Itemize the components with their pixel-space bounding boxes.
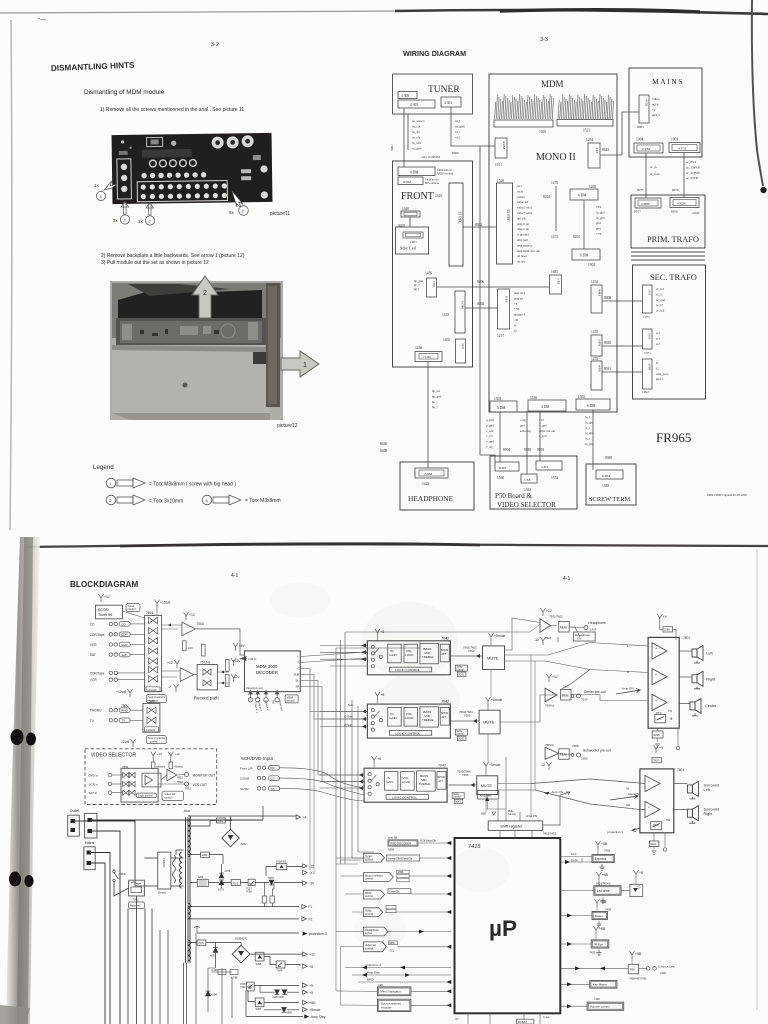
svg-text:4 301: 4 301: [444, 101, 452, 105]
svg-text:PHONO: PHONO: [90, 709, 102, 713]
svg-text:ATT: ATT: [441, 715, 446, 719]
screw arrow left with circle 3: [104, 181, 117, 190]
vcr out jack: [185, 782, 189, 786]
svg-text:7420: 7420: [594, 997, 600, 1001]
SCAN_ARTIFACTS: [0, 0, 768, 530]
svg-text:1425: 1425: [422, 482, 429, 486]
PAGE2 BACKGROUND & ARTIFACTS: [0, 537, 768, 1024]
svg-text:tu_stereo: tu_stereo: [412, 119, 425, 123]
svg-text:control: control: [365, 877, 373, 881]
svg-text:SL: SL: [626, 787, 630, 791]
svg-text:tu_l: tu_l: [455, 119, 460, 123]
connector 4296: [197, 879, 208, 886]
svg-text:control: control: [365, 912, 373, 916]
microprocessor 7415: [455, 838, 561, 1013]
sound selector control flag: [363, 873, 393, 882]
legend item 3: [202, 495, 212, 505]
svg-text:7003: 7003: [232, 881, 238, 885]
bus wires to uP flags: [336, 858, 363, 982]
svg-text:+8D: +8D: [481, 812, 487, 816]
TUNER box: [393, 74, 473, 114]
F1 F2 bus: [189, 906, 300, 908]
svg-text:8056: 8056: [671, 210, 678, 214]
svg-text:Subwoofer pre-out: Subwoofer pre-out: [583, 749, 611, 753]
svg-text:HEADPHONE: HEADPHONE: [408, 494, 454, 503]
svg-text:1302: 1302: [578, 395, 585, 399]
tuner control flag: [363, 853, 384, 862]
svg-text:TREBLE: TREBLE: [422, 655, 434, 659]
svg-text:15 PFC: 15 PFC: [458, 211, 463, 224]
svg-text:TUNER: TUNER: [428, 85, 460, 95]
svg-text:MDM 3000: MDM 3000: [256, 664, 278, 669]
svg-text:12V: 12V: [188, 646, 193, 650]
diode 6208: [206, 991, 211, 996]
diode 6999: [282, 1007, 287, 1012]
IR eye box: [594, 926, 599, 934]
svg-text:-7992: -7992: [132, 898, 140, 902]
long verticals to bottom: [128, 896, 152, 1024]
svg-text:c stg: c stg: [520, 418, 526, 422]
svg-text:control: control: [150, 698, 158, 702]
svg-text:780X: 780X: [677, 768, 685, 772]
svg-text:BLOCKDIAGRAM: BLOCKDIAGRAM: [70, 580, 138, 589]
svg-text:gnd_a: gnd_a: [652, 113, 660, 117]
svg-text:4-1: 4-1: [231, 573, 238, 579]
tuner right wire to MDM 1511: [451, 107, 495, 462]
svg-text:8202: 8202: [543, 195, 550, 199]
screw arrow right 6x circle 2: [232, 191, 243, 208]
video sel control flag: [363, 942, 386, 952]
svg-text:700/70/3: 700/70/3: [276, 860, 287, 864]
svg-text:+5mute: +5mute: [489, 763, 501, 767]
svg-text:+: +: [655, 647, 657, 651]
speakers SL SR: [687, 785, 692, 793]
svg-text:7002: 7002: [218, 819, 224, 823]
svg-text:1410: 1410: [435, 194, 442, 198]
svg-text:tu_sda: tu_sda: [412, 141, 421, 145]
svg-text:+F: +F: [303, 816, 307, 820]
screw arrow bottom2 with circle 3: [146, 203, 154, 216]
box 7079: [197, 940, 206, 945]
input wires box3: [320, 775, 364, 788]
tuner signal wires down: [404, 108, 408, 167]
svg-text:amp main cntr sub: amp main cntr sub: [517, 249, 540, 253]
svg-text:GAIN: GAIN: [389, 716, 396, 720]
svg-text:+12V: +12V: [233, 659, 242, 663]
svg-text:6208: 6208: [211, 993, 217, 997]
svg-text:control: control: [287, 699, 295, 703]
svg-text:r/dkay: r/dkay: [652, 97, 660, 101]
svg-text:-12: -12: [534, 638, 539, 642]
svg-text:3 E8: 3 E8: [432, 281, 436, 287]
svg-text:+30: +30: [514, 307, 519, 311]
svg-text:1x: 1x: [138, 219, 144, 224]
svg-text:1272: 1272: [551, 235, 558, 239]
svg-text:8401: 8401: [390, 144, 394, 151]
svg-text:6206/6202: 6206/6202: [235, 937, 248, 941]
svg-text:f2: f2: [656, 366, 659, 370]
svg-text:-12V: -12V: [233, 675, 241, 679]
svg-text:2 VM: 2 VM: [642, 147, 650, 151]
center pre amp 7660-a: [547, 674, 552, 682]
svg-text:IR Eye: IR Eye: [594, 942, 603, 946]
svg-text:3 E8: 3 E8: [648, 289, 652, 295]
svg-text:1385: 1385: [602, 484, 609, 488]
box 7044: [276, 961, 285, 968]
svg-text:3 E8: 3 E8: [524, 478, 531, 482]
antenna +15sat: [155, 600, 160, 608]
svg-text:protection 1: protection 1: [607, 830, 623, 834]
svg-text:ac_PVA: ac_PVA: [686, 160, 697, 164]
svg-text:protection 3: protection 3: [309, 932, 327, 936]
svg-text:8008: 8008: [604, 296, 611, 300]
svg-text:dd req: dd req: [517, 260, 525, 264]
svg-text:-: -: [648, 786, 649, 790]
resistors before decoder: [226, 659, 230, 671]
svg-text:ac_A: ac_A: [650, 165, 657, 169]
mains switch: [113, 870, 115, 872]
svg-text:7660-b: 7660-b: [545, 743, 554, 747]
svg-text:8306: 8306: [452, 151, 459, 155]
svg-text:1511: 1511: [495, 163, 502, 167]
svg-text:VIDEO SELECTOR: VIDEO SELECTOR: [91, 753, 137, 759]
svg-text:subw sig: subw sig: [520, 429, 531, 433]
box 9097: [255, 998, 264, 1007]
svg-text:SPKR: SPKR: [441, 711, 448, 715]
L/R in wires to decoder top: [336, 641, 420, 648]
svg-text:7042: 7042: [441, 700, 449, 704]
key matrix box: [590, 981, 617, 989]
svg-text:MFD: MFD: [367, 978, 374, 982]
svg-text:4 4H: 4 4H: [541, 465, 548, 469]
pin labels (rotated, illegible in scan): [495, 94, 614, 119]
headphone sense flag: [363, 927, 388, 936]
svg-text:ssfiac sel: ssfiac sel: [517, 200, 528, 204]
svg-text:CDR/Tape: CDR/Tape: [90, 633, 105, 637]
svg-text:C-out: C-out: [543, 1015, 550, 1019]
wires from mute1 to headphone/power amps: [505, 618, 649, 673]
record amp 7504: [175, 660, 180, 668]
svg-text:Stby Led: Stby Led: [400, 246, 417, 251]
svg-text:2) Remove backplate a little b: 2) Remove backplate a little backwards. …: [101, 253, 245, 259]
svg-text:LOGIC CONTROL: LOGIC CONTROL: [395, 731, 420, 735]
svg-text:cl ground: cl ground: [517, 233, 529, 237]
svg-text:+D: +D: [455, 1017, 459, 1021]
svg-text:Record path: Record path: [194, 696, 219, 701]
svg-text:P50 Board &: P50 Board &: [495, 492, 533, 500]
wires mains to prim trafo: [646, 153, 684, 199]
svg-text:f1: f1: [514, 323, 517, 327]
svg-text:amp ir on: amp ir on: [517, 222, 529, 226]
svg-text:F2: F2: [308, 918, 312, 922]
svg-text:ac_33VB: ac_33VB: [686, 176, 698, 180]
svg-text:FR965: FR965: [656, 430, 691, 445]
svg-text:Left: Left: [706, 652, 713, 656]
decoder output bus wires: [300, 652, 367, 657]
svg-text:VCR OUT: VCR OUT: [193, 783, 207, 787]
MAINS box: [629, 68, 702, 157]
svg-text:Key Matrix: Key Matrix: [593, 983, 608, 987]
svg-text:15 PFC: 15 PFC: [506, 209, 511, 222]
svg-text:TREBLE: TREBLE: [422, 718, 434, 722]
faint scan ghosting on page2: [270, 582, 510, 950]
menu navigator box: [378, 987, 411, 996]
svg-text:6279: 6279: [225, 869, 231, 873]
svg-text:MONO II: MONO II: [536, 152, 576, 163]
digital input jacks: [248, 698, 252, 702]
svg-text:PHO: PHO: [121, 709, 128, 713]
box 7003: [231, 880, 240, 886]
small speck top-left: [38, 18, 46, 20]
svg-text:+5V: +5V: [239, 644, 246, 648]
svg-text:subw pin out: subw pin out: [539, 429, 555, 433]
svg-text:805 version: 805 version: [425, 181, 440, 185]
svg-text:Mute: Mute: [560, 625, 567, 629]
svg-text:GAIN: GAIN: [386, 780, 393, 784]
svg-text:Amp Stby: Amp Stby: [367, 971, 381, 975]
wire 8402: [465, 307, 498, 309]
headphone pre amp 7607: [541, 608, 546, 616]
svg-text:TRAFO: TRAFO: [162, 858, 166, 868]
svg-text:LOUD: LOUD: [405, 653, 414, 657]
svg-text:SAT: SAT: [121, 653, 127, 657]
svg-text:1003: 1003: [671, 138, 678, 142]
svg-text:ac_gnd: ac_gnd: [656, 298, 665, 302]
svg-text:7 DM: 7 DM: [423, 355, 431, 359]
pin header bar 2: [557, 120, 613, 127]
svg-text:8085: 8085: [637, 125, 644, 129]
svg-text:RC6 Data/Clk: RC6 Data/Clk: [420, 839, 437, 843]
svg-text:ssclk: ssclk: [517, 189, 524, 193]
svg-text:6 DM: 6 DM: [602, 474, 610, 478]
svg-text:7807: 7807: [653, 759, 659, 763]
pin header bar 1: [494, 120, 553, 127]
tuner signal labels: [390, 119, 465, 159]
svg-text:LOGIC: LOGIC: [148, 688, 158, 692]
svg-text:DVD in: DVD in: [89, 774, 99, 778]
svg-text:VCR: VCR: [90, 643, 97, 647]
svg-text:SPKR: SPKR: [441, 648, 448, 652]
svg-text:amp tr int: amp tr int: [517, 227, 529, 231]
15PFC signal list: [517, 184, 540, 264]
primary winding: [180, 852, 182, 888]
svg-text:amp_pace: amp_pace: [656, 372, 669, 376]
svg-text:1075: 1075: [643, 315, 650, 319]
svg-text:Menu Navigator: Menu Navigator: [380, 990, 400, 994]
page2 left dark smudge band: [0, 0, 1, 1]
svg-text:Right: Right: [706, 677, 716, 681]
svg-text:= Torx M3x8mm: = Torx M3x8mm: [245, 498, 281, 504]
svg-text:6202: 6202: [650, 842, 656, 846]
screw arrow bottom1 with circle 2: [121, 202, 129, 215]
svg-text:SL/SR: SL/SR: [240, 787, 250, 791]
svg-text:Amp ON: Amp ON: [628, 792, 639, 796]
svg-text:7405: 7405: [604, 849, 611, 853]
svg-text:amp main tr: amp main tr: [517, 243, 532, 247]
svg-text:MDL FR965 /update 02-26-2000: MDL FR965 /update 02-26-2000: [707, 493, 747, 497]
relay 7992: [129, 880, 145, 896]
svg-text:PRIM. TRAFO: PRIM. TRAFO: [647, 235, 699, 244]
svg-text:7415: 7415: [468, 844, 481, 850]
phono/tv switch box: [128, 689, 133, 697]
svg-text:8201: 8201: [573, 235, 580, 239]
svg-text:VCR: VCR: [90, 678, 97, 682]
HEADPHONE box: [400, 462, 474, 510]
arrow 1 right: [281, 351, 319, 377]
WIRING DIAGRAM part 2: [380, 68, 747, 510]
speakers LRC: [692, 649, 697, 657]
connector 1511 4DM: [495, 138, 507, 158]
svg-text:TREBLE: TREBLE: [419, 782, 431, 786]
svg-text:ac_118VB: ac_118VB: [686, 171, 700, 175]
svg-text:Dismantling of MDM module: Dismantling of MDM module: [84, 89, 165, 96]
svg-text:-: -: [655, 653, 656, 657]
svg-text:Video sel: Video sel: [165, 792, 176, 796]
svg-text:Data/Clk: Data/Clk: [390, 890, 401, 894]
svg-text:7801: 7801: [683, 636, 690, 640]
svg-text:7041: 7041: [441, 636, 449, 640]
diodes 6200 6206: [275, 990, 280, 995]
svg-text:6200 6206: 6200 6206: [273, 996, 285, 999]
svg-text:encoder: encoder: [381, 1006, 391, 1010]
svg-text:+12: +12: [104, 595, 110, 599]
svg-text:4 V3I: 4 V3I: [678, 147, 687, 151]
svg-text:Shift register: Shift register: [500, 824, 523, 829]
DISMANTLING SECTION: [51, 42, 319, 505]
bridge rectifier 6201: [222, 829, 240, 847]
led drive box: [597, 872, 602, 880]
svg-text:7503: 7503: [197, 622, 204, 626]
svg-text:L/R in: L/R in: [249, 657, 257, 661]
svg-text:7002 709d: 7002 709d: [240, 986, 252, 989]
stdby control 9043: [452, 792, 464, 798]
svg-text:9041: 9041: [458, 673, 464, 677]
svg-text:control: control: [456, 732, 464, 735]
stdby control 9042: [455, 729, 467, 735]
WIRING DIAGRAM PAGE (top right): [390, 37, 643, 462]
svg-text:MDS version: MDS version: [437, 172, 454, 176]
svg-text:picture11: picture11: [270, 211, 290, 217]
VIDEO SELECTOR dashed box: [85, 749, 217, 805]
svg-text:gnd: gnd: [596, 227, 601, 231]
svg-text:7501: 7501: [146, 611, 154, 615]
svg-text:1520: 1520: [497, 179, 504, 183]
svg-text:9043: 9043: [455, 800, 461, 804]
svg-text:142F: 142F: [590, 628, 597, 632]
svg-text:+9: +9: [309, 984, 313, 988]
svg-text:tu_da: tu_da: [412, 130, 420, 134]
svg-text:SPKR: SPKR: [437, 775, 444, 779]
svg-text:+VL: +VL: [596, 205, 602, 209]
box above uP: [478, 791, 499, 800]
svg-text:1071: 1071: [644, 351, 651, 355]
svg-text:f1: f1: [656, 361, 659, 365]
hole punch dot 2: [9, 872, 21, 887]
svg-text:tu_r: tu_r: [455, 130, 461, 134]
svg-text:8004: 8004: [503, 448, 510, 452]
svg-text:Surround: Surround: [704, 784, 720, 788]
svg-text:1560: 1560: [497, 476, 504, 480]
svg-text:amp pint: amp pint: [517, 238, 528, 242]
secondary winding 1: [189, 815, 191, 857]
svg-text:4 E8: 4 E8: [461, 343, 465, 349]
box 1282: [201, 852, 210, 857]
svg-text:+12val: +12val: [116, 690, 126, 694]
page2 top scan edge: [28, 544, 768, 547]
connector 4301: [441, 97, 461, 107]
svg-text:6999: 6999: [287, 1012, 293, 1015]
svg-text:Mains rel: Mains rel: [130, 905, 140, 908]
mute control bus vertical: [486, 670, 491, 813]
svg-text:MAINS: MAINS: [652, 77, 684, 86]
svg-text:+5B: +5B: [602, 873, 609, 877]
svg-text:7659: 7659: [462, 773, 469, 777]
svg-text:ac_lu2: ac_lu2: [656, 309, 665, 313]
svg-text:TV: TV: [121, 719, 125, 723]
box 9096 with diode: [255, 952, 264, 961]
audio processor 7042: [367, 704, 450, 738]
svg-text:v_sda: v_sda: [486, 429, 494, 433]
svg-text:Amp ON: Amp ON: [552, 790, 564, 794]
wire 8002: [463, 226, 497, 228]
arrow 2 up: [192, 276, 218, 318]
ECOS tuner box: [96, 605, 123, 619]
svg-text:7044: 7044: [277, 969, 283, 973]
svg-text:MONITOR OUT: MONITOR OUT: [193, 774, 216, 778]
svg-text:+B: +B: [639, 871, 644, 875]
svg-text:6 DM: 6 DM: [580, 254, 589, 258]
svg-text:8402: 8402: [477, 302, 484, 306]
svg-text:+: +: [655, 699, 657, 703]
svg-text:7411/7412: 7411/7412: [543, 832, 556, 836]
svg-text:1282: 1282: [202, 853, 208, 857]
svg-text:8406: 8406: [477, 280, 484, 284]
svg-text:ac2: ac2: [656, 336, 661, 340]
svg-text:4 DM: 4 DM: [410, 171, 419, 175]
svg-text:3-3: 3-3: [540, 37, 548, 43]
7011 boxes: [246, 982, 254, 991]
svg-text:Front L/R: Front L/R: [240, 766, 253, 770]
wire 8406: [437, 286, 550, 288]
+12 antennas with resistors: [151, 752, 156, 762]
svg-text:ac_l2: ac_l2: [656, 303, 663, 307]
top scan edge line left half: [0, 11, 400, 13]
svg-text:LOGIC CONTROL: LOGIC CONTROL: [392, 795, 417, 799]
svg-text:Sub: Sub: [348, 703, 354, 707]
svg-text:-30: -30: [309, 882, 314, 886]
record amp 7503: [184, 612, 189, 620]
svg-text:1459: 1459: [425, 272, 432, 276]
svg-text:+5: +5: [309, 991, 313, 995]
svg-text:7662: 7662: [468, 649, 475, 653]
svg-text:+8video: +8video: [156, 765, 166, 769]
svg-text:tu_gnd: tu_gnd: [455, 125, 465, 129]
svg-text:+: +: [648, 806, 650, 810]
surround power amp 780X: [654, 745, 659, 753]
svg-text:Stereo/Clk/AData/Clk: Stereo/Clk/AData/Clk: [388, 856, 413, 860]
led indicator: [634, 870, 639, 878]
power amp 7801: [657, 614, 662, 622]
svg-text:lu_gnd: lu_gnd: [596, 216, 605, 220]
svg-text:C: C: [298, 667, 300, 671]
top scan edge line right half (darker): [395, 10, 768, 14]
svg-text:Outlet: Outlet: [70, 809, 80, 813]
svg-text:1255: 1255: [591, 357, 598, 361]
right curved scan line with dot: [752, 0, 763, 186]
svg-text:lu_l: lu_l: [585, 415, 590, 419]
svg-text:8001: 8001: [184, 809, 191, 813]
svg-text:m2/6: m2/6: [652, 102, 659, 106]
